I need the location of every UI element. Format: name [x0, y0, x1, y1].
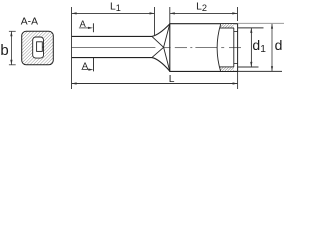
- tube top edge: [72, 35, 153, 37]
- sleeve cut hatch band top: [220, 24, 234, 28]
- dimension L2 line: [170, 12, 237, 14]
- flare curve bottom: [152, 58, 170, 72]
- section cut mark A top: cut line: [92, 23, 94, 32]
- dimension b extension ticks: [9, 30, 16, 32]
- centerline (dash-dot axis): [71, 47, 241, 49]
- section A-A inner rect: [37, 42, 43, 52]
- funnel arc: [217, 24, 221, 72]
- funnel diagonal top: [164, 24, 170, 47]
- end face inner line: [233, 28, 235, 67]
- section cut mark A bottom: leader with arrow: [82, 69, 92, 71]
- extension line d top (gray): [238, 22, 284, 24]
- lip horizontal bottom: [234, 62, 238, 64]
- dimension d line: [271, 24, 273, 71]
- dimension d1 line: [250, 28, 252, 66]
- inner cone bottom: [152, 47, 163, 57]
- lip horizontal top: [234, 30, 238, 32]
- section A-A seam tick: [42, 46, 43, 48]
- extension line d1 bottom: [238, 66, 259, 68]
- svg-text:L: L: [169, 74, 175, 85]
- inner cone top: [152, 37, 163, 48]
- sleeve top edge: [169, 23, 238, 25]
- svg-text:L2: L2: [196, 1, 207, 13]
- sleeve bottom edge: [169, 70, 238, 72]
- svg-text:A: A: [80, 19, 87, 29]
- sleeve cut hatch band bottom: [220, 67, 234, 71]
- section cut mark A bottom: cut line: [92, 57, 94, 71]
- svg-text:A: A: [82, 60, 89, 71]
- extension line d1 top: [238, 27, 264, 29]
- extension line d bottom: [238, 70, 282, 72]
- extension line L2 right: [237, 7, 239, 21]
- section cut mark A top: leader with arrow: [79, 27, 91, 29]
- extension line L2 left (above sleeve): [169, 7, 171, 24]
- funnel diagonal bottom: [164, 47, 170, 71]
- svg-text:b: b: [0, 42, 8, 59]
- extension line L1 right: [154, 7, 156, 35]
- dimension L1 line: [72, 12, 154, 14]
- end face outer line: [237, 24, 239, 72]
- flare curve top: [152, 24, 170, 37]
- section A-A slot: [33, 37, 44, 58]
- extension line L right: [237, 72, 239, 89]
- tube left end face / shared extension line: [71, 7, 73, 89]
- section A-A hatched body: [22, 31, 54, 65]
- bore line top: [220, 27, 234, 29]
- bore line bottom: [220, 66, 234, 68]
- dimension b line with arrows: [10, 32, 12, 65]
- dimension L line: [72, 83, 237, 85]
- svg-text:L1: L1: [110, 1, 121, 13]
- tube bottom edge: [72, 57, 153, 59]
- sleeve left edge: [169, 24, 171, 72]
- svg-text:A-A: A-A: [21, 17, 38, 28]
- svg-text:d: d: [275, 37, 283, 53]
